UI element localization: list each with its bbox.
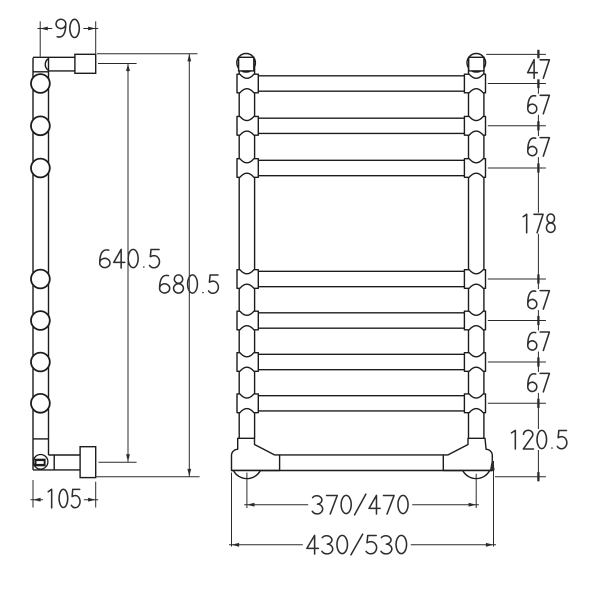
chain extension line 5	[488, 278, 546, 280]
dimension 370/470 label	[308, 494, 412, 515]
chain extension line 4	[488, 167, 546, 169]
dimension 680.5 extension lines	[97, 53, 198, 55]
chain label 178 at 223.3	[518, 213, 559, 234]
chain tick 4	[537, 163, 539, 172]
chain extension line 8	[488, 402, 546, 404]
collar joint L4	[237, 270, 258, 289]
corner arrow at base right	[490, 457, 495, 470]
chain tick 5	[537, 274, 539, 283]
chain label 120.5 at 439.5	[506, 429, 571, 450]
rung 3	[258, 160, 464, 175]
chain extension line 3	[488, 125, 546, 127]
left foot fitting	[231, 438, 279, 470]
front view left tube	[239, 66, 254, 438]
chain label 67 at 299.6	[524, 289, 553, 310]
collar joint L1	[237, 74, 258, 93]
dimension 640.5 line	[127, 64, 129, 462]
collar joint R5	[464, 311, 485, 330]
collar joint R7	[464, 394, 485, 413]
dimension 90 line	[38, 28, 99, 30]
dimension 370/470 extension lines	[246, 473, 248, 508]
chain label 67 at 382.4	[524, 372, 553, 393]
chain tick 1	[537, 50, 539, 59]
chain tick 8	[537, 399, 539, 408]
left foot disc	[233, 471, 260, 479]
chain extension line 6	[488, 320, 546, 322]
chain tick 3	[537, 121, 539, 130]
right tube top cap	[467, 54, 486, 73]
dimension 90 extension lines	[39, 21, 41, 56]
collar joint R2	[464, 116, 485, 135]
side view vertical tube	[33, 58, 49, 470]
chain label 67 at 104.3	[524, 94, 553, 115]
collar joint L6	[237, 353, 258, 372]
rung 2	[258, 118, 464, 133]
chain tick 7	[537, 357, 539, 366]
dimension 105 label	[43, 488, 84, 509]
drain valve screw head	[34, 459, 45, 467]
rung 7	[258, 396, 464, 411]
side view bottom elbow and pipe	[33, 439, 80, 470]
dimension 640.5 label	[100, 249, 160, 268]
rung 4	[258, 271, 464, 286]
chain label 67 at 146.6	[524, 136, 553, 157]
wall bracket top (side view)	[75, 54, 96, 73]
dimension 680.5 line	[188, 54, 190, 477]
base crossbar	[232, 455, 493, 471]
collar joint L5	[237, 311, 258, 330]
collar joint L2	[237, 116, 258, 135]
collar joint R6	[464, 353, 485, 372]
right foot disc	[463, 471, 490, 479]
dimension 370/470 line	[244, 504, 479, 506]
rung 5	[258, 313, 464, 328]
right foot fitting	[443, 438, 492, 470]
chain extension line 1	[486, 53, 546, 55]
dimension 640.5 extension lines	[98, 63, 137, 65]
dimension 430/530 label	[303, 534, 411, 555]
front view right tube	[469, 66, 484, 438]
dimension 90 label	[52, 18, 83, 39]
chain extension line 7	[488, 361, 546, 363]
chain dimension line	[537, 54, 539, 476]
dimension 105 extension lines	[32, 480, 34, 508]
left tube top cap	[237, 54, 256, 73]
drain valve circle	[33, 455, 48, 470]
side view top elbow and horizontal pipe	[33, 57, 75, 72]
chain label 67 at 341.0	[524, 331, 553, 352]
collar joint L3	[237, 159, 258, 178]
dimension 430/530 line	[229, 544, 496, 546]
collar joint R1	[464, 74, 485, 93]
rung 1	[258, 76, 464, 91]
dimension 105 line	[31, 499, 99, 501]
chain label 47 at 68.8	[524, 58, 553, 79]
chain extension line 2	[488, 83, 546, 85]
dimension 680.5 label	[160, 275, 219, 293]
dimension 430/530 extension lines	[231, 473, 233, 547]
chain tick 6	[537, 316, 539, 325]
chain tick 2	[537, 79, 539, 88]
wall bracket bottom (side view)	[80, 447, 96, 478]
collar joint R3	[464, 159, 485, 178]
chain extension line 9	[495, 476, 546, 478]
rung 6	[258, 354, 464, 369]
collar joint L7	[237, 394, 258, 413]
collar joint R4	[464, 270, 485, 289]
side view crossbar end circles	[31, 74, 50, 413]
chain tick 9	[537, 472, 539, 481]
